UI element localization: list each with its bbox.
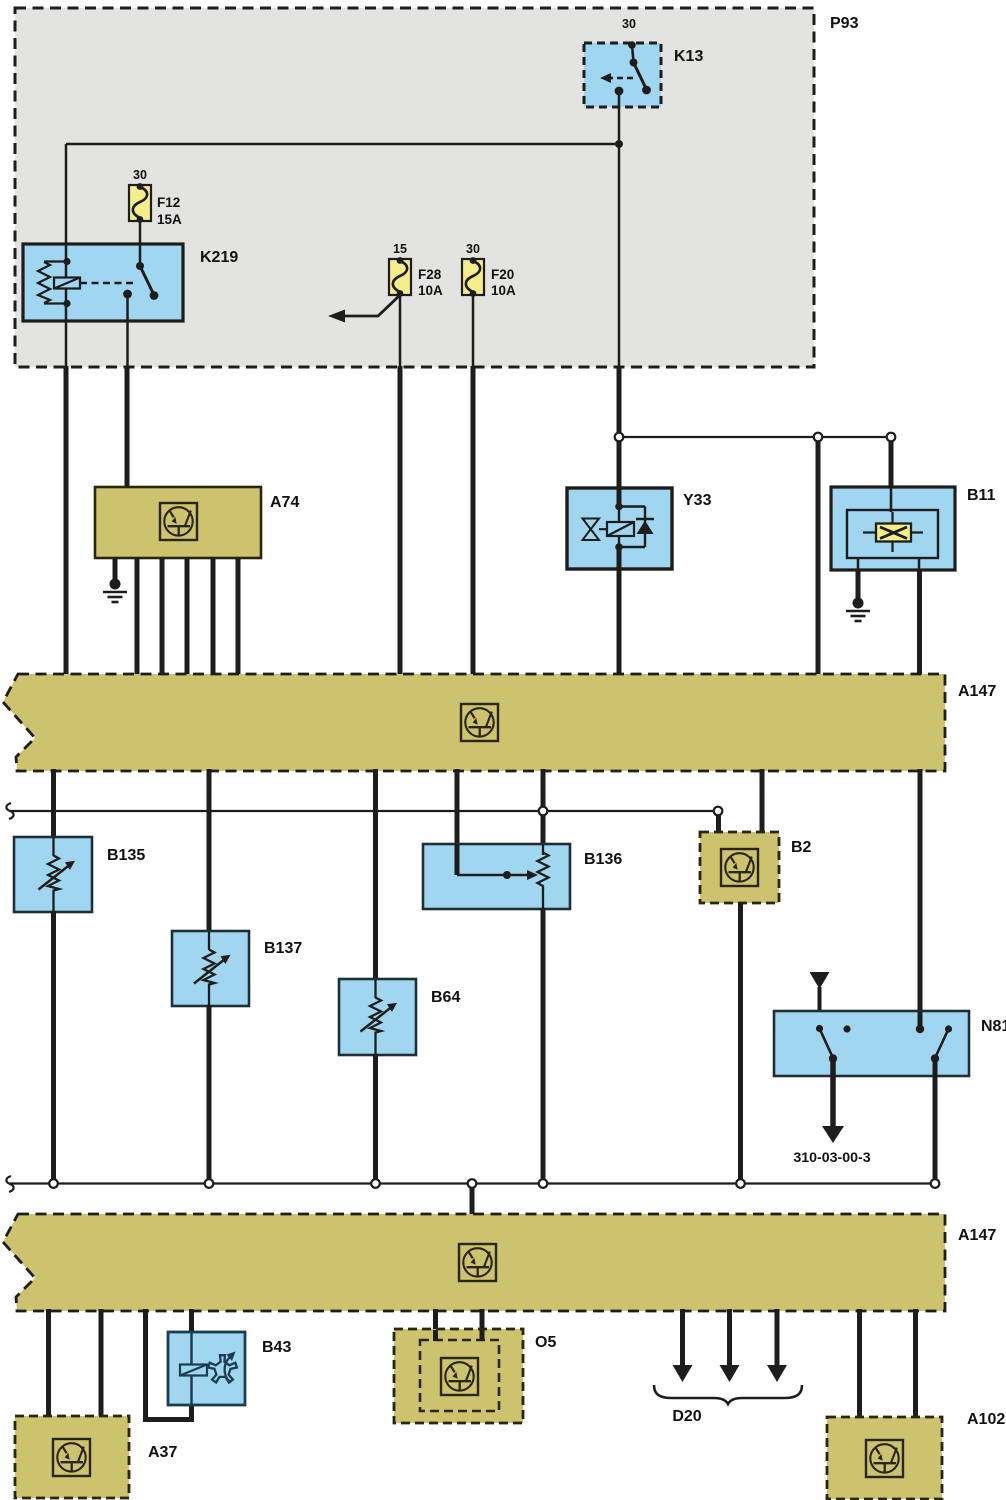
svg-text:B2: B2	[791, 839, 812, 856]
svg-text:Y33: Y33	[683, 492, 712, 509]
svg-text:K13: K13	[674, 48, 703, 65]
svg-text:310-03-00-3: 310-03-00-3	[793, 1150, 870, 1166]
svg-text:B43: B43	[262, 1339, 291, 1356]
svg-text:10A: 10A	[418, 283, 443, 298]
svg-text:D20: D20	[672, 1408, 701, 1425]
svg-text:A147: A147	[958, 683, 996, 700]
svg-text:F20: F20	[491, 267, 514, 282]
svg-text:O5: O5	[535, 1334, 556, 1351]
svg-text:A147: A147	[958, 1227, 996, 1244]
svg-text:30: 30	[622, 17, 636, 31]
svg-text:B64: B64	[431, 989, 460, 1006]
svg-text:15A: 15A	[157, 212, 182, 227]
svg-text:10A: 10A	[491, 283, 516, 298]
svg-text:15: 15	[393, 242, 407, 256]
svg-text:A74: A74	[270, 494, 299, 511]
svg-text:30: 30	[133, 168, 147, 182]
svg-text:B11: B11	[967, 487, 996, 504]
svg-text:F28: F28	[418, 267, 442, 282]
svg-text:B137: B137	[264, 940, 302, 957]
svg-text:F12: F12	[157, 195, 180, 210]
svg-text:A37: A37	[148, 1444, 177, 1461]
svg-text:P93: P93	[830, 15, 859, 32]
svg-text:K219: K219	[200, 249, 238, 266]
svg-text:N81: N81	[981, 1018, 1006, 1035]
svg-text:30: 30	[466, 242, 480, 256]
svg-text:B135: B135	[107, 847, 145, 864]
svg-text:A102: A102	[967, 1411, 1005, 1428]
svg-text:B136: B136	[584, 851, 622, 868]
